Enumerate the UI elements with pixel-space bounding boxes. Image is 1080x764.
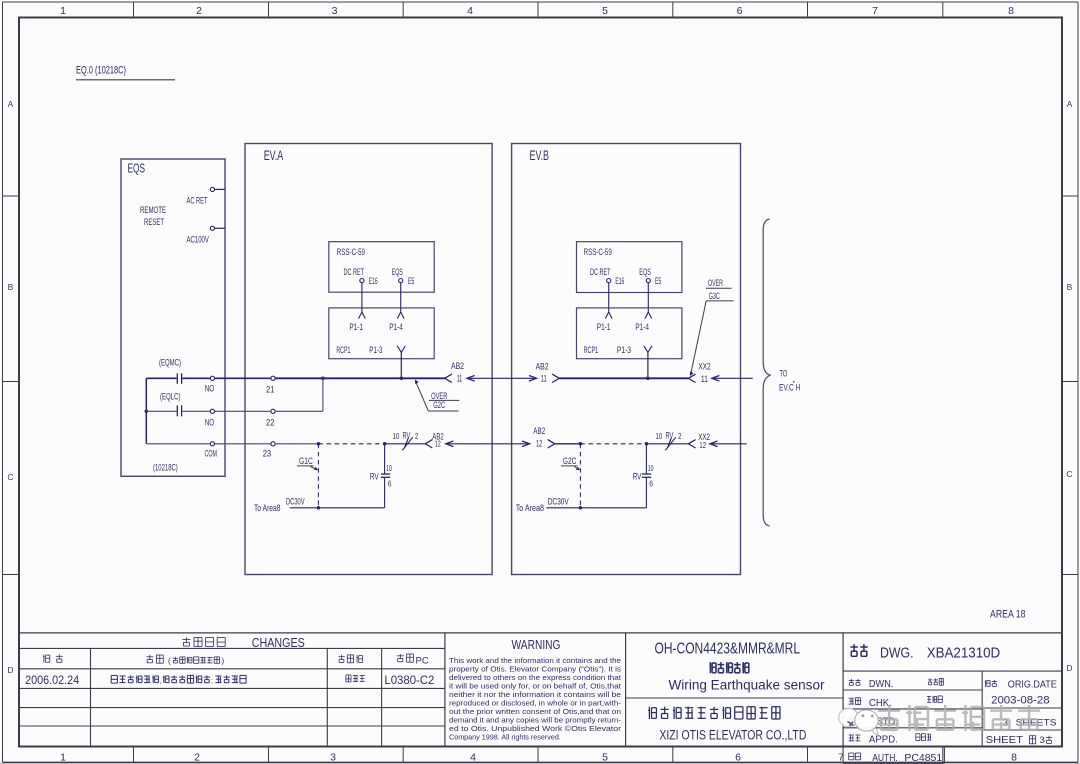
wire P1-3 down to bus (EV.B) (647, 352, 649, 378)
bus wire 11 EV.A (275, 377, 445, 379)
terminal NO1 (210, 376, 214, 380)
svg-text:RV: RV (633, 471, 642, 481)
svg-text:AC RET: AC RET (187, 196, 208, 207)
svg-text:AB2: AB2 (536, 361, 549, 371)
terminal 22 (266, 409, 275, 428)
svg-text:PC: PC (416, 655, 429, 666)
svg-text:B: B (8, 282, 14, 292)
svg-text:7: 7 (872, 5, 878, 17)
terminal AC100V (187, 226, 225, 245)
bottom edge shade (0, 763, 1080, 764)
wire 11 to EV.C (712, 376, 753, 382)
svg-text:10: 10 (656, 431, 663, 441)
svg-text:OVER: OVER (708, 278, 723, 289)
warning title (512, 637, 561, 652)
terminal COM (210, 442, 214, 446)
connector P1 (EV.A) (329, 308, 434, 359)
svg-text:(10218C): (10218C) (153, 462, 178, 472)
svg-text:6: 6 (735, 751, 741, 763)
svg-text:3: 3 (332, 5, 338, 17)
change record description (111, 675, 246, 685)
watermark logo bubbles (839, 708, 879, 734)
changes table header row (182, 635, 305, 650)
svg-text:,: , (160, 678, 162, 685)
svg-text:RV: RV (370, 471, 379, 481)
title block middle divider (626, 697, 844, 699)
capacitor RV (EV.A) (370, 444, 392, 508)
title Wiring Earthquake sensor (669, 676, 825, 692)
company XIZI OTIS ELEVATOR CO.,LTD (659, 728, 806, 743)
svg-text:AC100V: AC100V (187, 234, 210, 245)
wire 12 EV.B to junction (555, 443, 581, 445)
module RSS-C-59 (EV.A) (329, 242, 434, 293)
title block top border (19, 632, 1062, 634)
svg-text:2: 2 (194, 751, 200, 763)
label To Area8 (EV.A) (254, 503, 281, 514)
wire E5 to P1-4 (EV.B) (647, 283, 649, 312)
svg-text:EV.A: EV.A (264, 148, 284, 163)
changes header content (146, 655, 224, 666)
label EQS (EV.B module) (639, 267, 651, 278)
wire 23 to junction (275, 443, 318, 445)
label (EQMC) (159, 358, 181, 369)
svg-text:P1-4: P1-4 (635, 322, 649, 332)
svg-text:6: 6 (737, 5, 743, 17)
pin E5 (EV.B) (646, 276, 661, 286)
svg-text:;: ; (211, 678, 213, 685)
label EQS (128, 162, 146, 176)
svg-text:DC30V: DC30V (548, 497, 569, 507)
title block right section grid (843, 633, 1062, 747)
wire EQLC row (146, 410, 271, 412)
label COM (205, 449, 218, 460)
svg-text:1: 1 (60, 751, 66, 763)
label REMOTE RESET (140, 205, 166, 228)
pin P1-1 (EV.A) (349, 312, 365, 332)
dashed riser G1C (317, 444, 321, 510)
svg-text:4: 4 (470, 751, 476, 763)
svg-text:RV: RV (666, 430, 674, 440)
svg-text:P1-3: P1-3 (617, 345, 631, 355)
junction left rail EQLC (145, 410, 149, 414)
wire EQMC row (146, 377, 271, 379)
wire 12 to RV contact (385, 443, 426, 445)
svg-text:CHANGES: CHANGES (252, 635, 305, 650)
box EV.A (245, 144, 492, 575)
svg-text:8: 8 (1011, 751, 1017, 763)
connector arrow AB2 11 out (EV.A) (445, 361, 464, 383)
svg-text:(EQLC): (EQLC) (160, 392, 181, 403)
wire DC30V (EV.B) (546, 497, 646, 508)
svg-text:Wiring Earthquake sensor: Wiring Earthquake sensor (669, 676, 825, 692)
label TO EV.C H (779, 368, 800, 393)
leader G1C (311, 467, 319, 471)
changes header PC (397, 654, 429, 666)
leader OVER G2C (415, 380, 428, 411)
svg-text:XX2: XX2 (698, 361, 711, 371)
svg-text:): ) (222, 657, 225, 666)
connector arrow XX2 11 out (EV.B) (688, 361, 710, 384)
svg-text:RCP1: RCP1 (336, 345, 350, 355)
svg-text:B: B (1067, 282, 1073, 292)
cell ORIG.DATE (985, 679, 1057, 690)
row AUTH PC4851 (849, 752, 943, 764)
connector P1 (EV.B) (577, 308, 682, 359)
left ruler band ticks (3, 196, 20, 575)
svg-text:DWN.: DWN. (869, 679, 894, 690)
row letters right (1066, 99, 1072, 673)
change record date 2006.02.24 (25, 675, 80, 687)
label To Area8 (EV.B) (516, 503, 544, 514)
svg-text:APPD.: APPD. (869, 735, 898, 746)
svg-text:D: D (7, 665, 13, 675)
svg-text:REMOTE: REMOTE (140, 205, 166, 216)
svg-text:1: 1 (60, 5, 66, 17)
terminal NO2 (210, 409, 214, 413)
svg-text:To Area8: To Area8 (516, 503, 544, 514)
label EV.B (530, 148, 550, 163)
svg-text:P1-1: P1-1 (349, 322, 363, 332)
svg-text:COM: COM (205, 449, 218, 460)
svg-text:4: 4 (467, 5, 473, 17)
contact RV (EV.B) 10-2 (656, 430, 682, 450)
svg-text:EQS: EQS (392, 267, 403, 278)
column numbers top (60, 5, 1014, 17)
cell SHEETS (1003, 717, 1057, 728)
label NO (second) (205, 417, 215, 428)
wire E5 to P1-4 (400, 283, 402, 312)
leader OVER G3C (690, 301, 706, 376)
net label OVER G3C (706, 278, 734, 302)
svg-text:2003-08-28: 2003-08-28 (991, 694, 1050, 706)
svg-text:8: 8 (1008, 5, 1014, 17)
junction 11 at P1-3 EV.B (646, 377, 650, 381)
svg-text:EQS: EQS (639, 267, 651, 278)
svg-text:AB2: AB2 (533, 426, 545, 436)
junction RV cap EV.B (645, 442, 649, 446)
svg-text:E16: E16 (615, 276, 624, 286)
cell SHEET page (986, 734, 1053, 746)
svg-text:C: C (1066, 469, 1072, 479)
warning text (449, 656, 622, 742)
capacitor RV (EV.B) (633, 444, 654, 508)
label EV.A (264, 148, 284, 163)
change record L0380-C2 (384, 675, 434, 687)
svg-text:6: 6 (649, 478, 653, 488)
svg-text:10: 10 (386, 463, 392, 473)
svg-text:EV.B: EV.B (530, 148, 550, 163)
label DC RET (EV.A) (344, 267, 365, 278)
svg-text:(EQMC): (EQMC) (159, 358, 181, 369)
connector arrow AB2 11 in (EV.B) (536, 361, 560, 383)
label DC RET (EV.B) (590, 267, 611, 278)
company chinese name (648, 707, 780, 719)
svg-text:RCP1: RCP1 (584, 345, 599, 355)
pin E5 (EV.A) (399, 276, 415, 286)
contact RV (EV.A) 10-2 (393, 430, 419, 450)
label (EQLC) (160, 392, 181, 403)
wire 12 to RV contact EV.B (646, 443, 688, 445)
svg-text:PC4851: PC4851 (904, 752, 942, 764)
svg-text:DC RET: DC RET (344, 267, 365, 278)
changes header person (338, 655, 362, 663)
svg-text:11: 11 (457, 374, 463, 384)
junction 11 at riser (321, 377, 325, 381)
changes header date (43, 655, 63, 663)
junction 11 at P1-3 (400, 377, 404, 381)
top ruler band ticks (134, 2, 943, 18)
svg-text:DC RET: DC RET (590, 267, 611, 278)
svg-text:XBA21310D: XBA21310D (927, 644, 1001, 661)
svg-text:3: 3 (1040, 735, 1045, 746)
title OH-CON4423&MMR&MRL (655, 641, 801, 658)
inter-unit wire 12 (446, 441, 530, 447)
left rail wire EQS (145, 378, 147, 444)
svg-text:A: A (8, 99, 14, 109)
dashed wire 12 EV.A (318, 443, 384, 445)
svg-text:EQS: EQS (128, 162, 146, 176)
connector arrow AB2 12 out (EV.A) (425, 432, 444, 449)
svg-text:23: 23 (263, 449, 272, 460)
svg-text:DC30V: DC30V (286, 497, 305, 507)
svg-text:To Area8: To Area8 (254, 503, 281, 514)
svg-text:10: 10 (393, 431, 400, 441)
bottom ruler band ticks (134, 747, 943, 763)
pin P1-3 (EV.A) (369, 345, 405, 355)
svg-text:E16: E16 (369, 276, 378, 286)
junction G1C riser (317, 442, 321, 446)
svg-text:D: D (1066, 663, 1072, 673)
svg-text:P1-3: P1-3 (369, 345, 382, 355)
change record person (346, 675, 365, 682)
svg-text:ORIG.DATE: ORIG.DATE (1008, 679, 1057, 690)
label RCP1 (EV.B) (584, 345, 599, 355)
svg-text:2: 2 (415, 431, 418, 441)
svg-text:L0380-C2: L0380-C2 (384, 675, 434, 687)
svg-text:12: 12 (435, 440, 441, 449)
svg-text:6: 6 (388, 478, 392, 488)
label RCP1 (EV.A) (336, 345, 350, 355)
terminal 23 (263, 442, 275, 460)
wire P1-3 down to bus (400, 352, 402, 378)
svg-text:12: 12 (536, 438, 542, 448)
cell 2003-08-28 (991, 694, 1050, 706)
dashed wire 12 EV.B (580, 443, 646, 445)
pin P1-4 (EV.B) (635, 312, 651, 332)
wire E16 to P1-1 (EV.B) (608, 283, 610, 312)
module RSS-C-59 (EV.B) (577, 242, 682, 293)
column numbers bottom (60, 751, 1017, 763)
svg-text:DWG.: DWG. (880, 644, 914, 661)
pin P1-3 (EV.B) (617, 345, 652, 355)
svg-text:2: 2 (196, 5, 202, 17)
svg-text:AREA 18: AREA 18 (990, 609, 1026, 621)
svg-text:RV: RV (403, 430, 411, 440)
watermark text glyphs (878, 705, 1040, 731)
net label G1C (297, 456, 314, 467)
svg-text:3: 3 (330, 751, 336, 763)
svg-text:EQ.0 (10218C): EQ.0 (10218C) (76, 65, 126, 77)
changes table grid (19, 633, 445, 747)
svg-text:10: 10 (648, 463, 654, 473)
brace to EV.C (763, 219, 770, 526)
svg-text:(: ( (168, 657, 171, 666)
warning box (625, 633, 627, 747)
contact EQLC (177, 405, 181, 416)
label EQS (EV.A module) (392, 267, 403, 278)
svg-text:E5: E5 (408, 276, 414, 286)
row CHK (849, 696, 943, 709)
connector arrow XX2 12 out (EV.B) (688, 432, 710, 450)
pin E16 (EV.B) (607, 276, 625, 286)
drawing title EQ.0 (10218C) (76, 65, 175, 80)
dashed riser G2C (579, 444, 583, 510)
svg-text:RSS-C-59: RSS-C-59 (337, 247, 365, 258)
svg-text:2: 2 (678, 431, 681, 441)
inter-unit wire 11 (467, 376, 536, 382)
title sensor chinese (709, 662, 748, 673)
row STD (849, 717, 898, 728)
svg-text:A: A (1067, 99, 1073, 109)
wire 12 to EV.C (710, 441, 747, 447)
svg-text:12: 12 (699, 441, 706, 450)
svg-text:C: C (7, 472, 13, 482)
svg-text:TO: TO (780, 368, 788, 379)
svg-text:5: 5 (602, 5, 608, 17)
svg-text:Company 1998. All rights rese: Company 1998. All rights reserved. (449, 733, 561, 742)
auth cell below frame (843, 747, 944, 764)
pin E16 (EV.A) (360, 276, 378, 286)
pin P1-4 (EV.A) (389, 312, 404, 332)
svg-text:E5: E5 (655, 276, 661, 286)
svg-text:NO: NO (205, 383, 215, 394)
svg-text:P1-1: P1-1 (597, 322, 611, 332)
svg-text:G2C: G2C (433, 400, 445, 411)
net label OVER G2C (428, 391, 459, 411)
terminal AC RET (187, 187, 225, 206)
svg-text:11: 11 (541, 374, 547, 384)
svg-text:SHEET: SHEET (986, 734, 1024, 746)
svg-text:RESET: RESET (144, 217, 164, 228)
svg-text:11: 11 (701, 374, 708, 384)
junction RV cap EV.A (383, 442, 387, 446)
leader G2C lower (575, 467, 581, 471)
svg-text:G3C: G3C (709, 291, 720, 302)
svg-text:XIZI OTIS ELEVATOR CO.,LTD: XIZI OTIS ELEVATOR CO.,LTD (659, 728, 806, 743)
svg-text:2006.02.24: 2006.02.24 (25, 675, 80, 687)
right ruler band ticks (1062, 196, 1078, 575)
net label G2C lower (561, 456, 578, 467)
bus wire 11 EV.B (559, 377, 688, 379)
connector arrow AB2 12 in (EV.B) (533, 426, 555, 449)
label (10218C) (153, 462, 178, 472)
svg-text:5: 5 (602, 751, 608, 763)
svg-text:WARNING: WARNING (512, 637, 561, 652)
drawing number DWG. XBA21310D (850, 644, 1000, 661)
pin P1-1 (EV.B) (597, 312, 612, 332)
svg-text:AUTH.: AUTH. (872, 753, 898, 764)
row APPD (849, 734, 932, 746)
label NO (first) (205, 383, 215, 394)
wire E16 to P1-1 (361, 283, 363, 312)
wire COM row (146, 443, 271, 445)
label AREA 18 (990, 609, 1026, 621)
contact EQMC (177, 373, 181, 384)
svg-text:22: 22 (266, 417, 275, 428)
svg-text:NO: NO (205, 417, 215, 428)
box EQS (earthquake sensor unit) (121, 159, 225, 476)
svg-text:EV.C H: EV.C H (779, 382, 800, 393)
box EV.B (512, 144, 741, 575)
wire DC30V (EV.A) (286, 497, 385, 508)
svg-text:RSS-C-59: RSS-C-59 (584, 247, 612, 258)
svg-text:21: 21 (266, 384, 275, 395)
row DWN (849, 678, 944, 690)
terminal 21 (266, 376, 275, 395)
wire 22 riser (275, 378, 323, 411)
row letters left (7, 99, 13, 675)
svg-text:AB2: AB2 (451, 361, 464, 371)
svg-text:OH-CON4423&MMR&MRL: OH-CON4423&MMR&MRL (655, 641, 801, 658)
svg-text:P1-4: P1-4 (389, 322, 403, 332)
junction G2C riser (579, 442, 583, 446)
